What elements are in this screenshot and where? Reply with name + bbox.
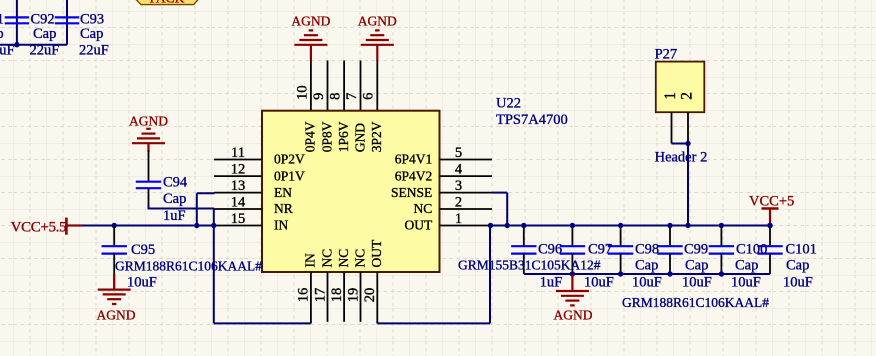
svg-text:22uF: 22uF — [79, 42, 109, 58]
svg-text:2: 2 — [678, 92, 695, 100]
capacitor C94 labels — [163, 175, 188, 224]
pin 11 (0P2V) left side — [214, 145, 305, 167]
capacitor C97 — [560, 226, 585, 275]
junction on bottom rail — [618, 271, 623, 276]
pin 10 (0P4V) top side — [294, 61, 317, 153]
svg-text:3: 3 — [455, 178, 462, 194]
junction at C92 lead and horizontal bus — [14, 42, 19, 47]
svg-text:P27: P27 — [655, 47, 678, 63]
U22 comment TPS7A4700 — [496, 112, 568, 128]
wire - capacitor bottom rail — [524, 273, 770, 275]
junction at C98 top — [618, 223, 623, 228]
junction on bottom rail — [667, 271, 672, 276]
pin 15 (IN) left side — [214, 211, 288, 233]
svg-text:Cap: Cap — [80, 26, 103, 42]
svg-text:11: 11 — [231, 145, 245, 161]
junction at SENSE riser — [505, 223, 510, 228]
svg-text:EN: EN — [274, 185, 292, 200]
svg-text:1P6V: 1P6V — [336, 121, 351, 152]
svg-text:C100: C100 — [736, 241, 767, 257]
svg-text:10uF: 10uF — [127, 274, 157, 290]
svg-text:7: 7 — [344, 93, 360, 100]
svg-text:VCC+5.5: VCC+5.5 — [11, 219, 67, 235]
svg-text:C95: C95 — [131, 242, 155, 258]
pin 2 of P27 — [678, 92, 695, 143]
junction at pin 1 OUT — [488, 223, 493, 228]
svg-text:13: 13 — [231, 178, 246, 194]
svg-text:0P2V: 0P2V — [274, 152, 305, 167]
wire - C94 down to NR net — [148, 188, 150, 209]
junction on bottom rail — [570, 271, 575, 276]
junction at C100 top — [719, 223, 724, 228]
wire - P27 pin1 to pin2 — [672, 143, 689, 145]
ground AGND above pin 10 — [291, 14, 330, 61]
svg-text:1uF: 1uF — [540, 274, 563, 290]
svg-text:22uF: 22uF — [30, 42, 60, 58]
junction at C101 top — [767, 223, 772, 228]
capacitor C99 — [657, 226, 682, 275]
pin 7 (GND) top side — [344, 61, 367, 153]
junction at P27 drop on OUT rail — [685, 223, 690, 228]
wire - top-left horizontal bus — [0, 44, 67, 46]
svg-text:p: p — [0, 26, 4, 42]
svg-text:C97: C97 — [588, 241, 612, 257]
pin 8 (1P6V) top side — [328, 61, 351, 153]
junction at EN riser — [194, 223, 199, 228]
connector P27 comment Header 2 — [655, 150, 708, 166]
wire - VCC+5.5 to pin 15 IN — [82, 225, 214, 227]
pin 5 (6P4V1) right side — [395, 145, 492, 167]
junction at C97 top — [570, 223, 575, 228]
junction at VCC+5 and C101 — [767, 223, 772, 228]
svg-text:Cap: Cap — [735, 257, 758, 273]
svg-text:GRM188R61C106KAAL#: GRM188R61C106KAAL# — [115, 259, 262, 274]
svg-text:9: 9 — [311, 93, 327, 100]
wire - top-left vertical into C93 lead — [66, 0, 68, 45]
svg-text:10uF: 10uF — [682, 274, 712, 290]
connector P27 body — [656, 62, 705, 113]
svg-text:14: 14 — [231, 194, 246, 210]
svg-text:AGND: AGND — [291, 14, 330, 29]
svg-text:SENSE: SENSE — [391, 185, 432, 200]
power port VCC+5.5 — [11, 218, 82, 236]
pin 6 (3P2V) top side — [361, 61, 384, 153]
pin 4 (6P4V2) right side — [395, 162, 492, 184]
capacitor C94 plates — [136, 182, 161, 189]
wire - top-left vertical into C92 lead — [16, 0, 18, 45]
svg-text:Cap: Cap — [163, 191, 186, 207]
ground AGND above C94 — [129, 114, 168, 152]
ground AGND below C95 — [97, 274, 136, 323]
wire - SENSE to OUT net — [492, 193, 507, 226]
svg-text:10uF: 10uF — [584, 274, 614, 290]
svg-text:OUT: OUT — [369, 239, 384, 267]
svg-text:NC: NC — [336, 249, 351, 268]
svg-text:PACK: PACK — [150, 0, 185, 6]
wire - pin 20 OUT bottom loop — [377, 226, 490, 324]
pin 20 (OUT) bottom side — [362, 239, 384, 322]
U22 designator label — [496, 95, 521, 111]
svg-text:C98: C98 — [635, 241, 659, 257]
pin 18 (NC) bottom side — [329, 249, 351, 322]
svg-text:0P1V: 0P1V — [274, 168, 305, 183]
shared part number GRM188R61C106KAAL# — [622, 295, 769, 310]
wire - EN riser — [197, 193, 215, 225]
svg-text:IN: IN — [303, 253, 318, 267]
pin 3 (SENSE) right side — [391, 178, 492, 200]
svg-text:AGND: AGND — [129, 114, 168, 129]
capacitor C96 labels — [458, 241, 601, 290]
svg-text:C99: C99 — [684, 241, 708, 257]
capacitor C101 labels — [783, 241, 817, 290]
svg-text:IN: IN — [274, 218, 288, 233]
svg-text:0P8V: 0P8V — [319, 121, 334, 152]
junction at P27 pin2 — [685, 141, 690, 146]
capacitor C95 — [102, 226, 127, 289]
pin 19 (NC) bottom side — [345, 249, 367, 322]
svg-text:AGND: AGND — [358, 14, 397, 29]
capacitor C95 labels — [115, 242, 262, 290]
svg-text:AGND: AGND — [554, 308, 593, 323]
ground AGND above pin 6 — [358, 14, 397, 61]
svg-text:NC: NC — [414, 201, 433, 216]
svg-text:TPS7A4700: TPS7A4700 — [496, 112, 568, 128]
svg-text:10: 10 — [294, 85, 310, 100]
svg-text:3P2V: 3P2V — [369, 121, 384, 152]
svg-text:10uF: 10uF — [632, 274, 662, 290]
svg-text:19: 19 — [345, 288, 361, 303]
capacitor C97 labels — [584, 241, 614, 290]
port PACK (clipped at top) — [134, 0, 201, 6]
wire - NR riser down through IN net to pin 16 loop — [213, 209, 215, 324]
svg-text:Cap: Cap — [33, 26, 56, 42]
pin 1 (OUT) right side — [405, 211, 492, 233]
svg-text:Cap: Cap — [685, 257, 708, 273]
pin 16 (IN) bottom side — [296, 253, 318, 322]
svg-text:Cap: Cap — [635, 257, 658, 273]
svg-text:OUT: OUT — [405, 218, 433, 233]
pin 2 (NC) right side — [414, 194, 492, 216]
junction on bottom rail — [719, 271, 724, 276]
capacitor C93 labels — [79, 11, 109, 58]
svg-text:1: 1 — [662, 92, 679, 100]
svg-text:0P4V: 0P4V — [303, 121, 318, 152]
capacitor C98 labels — [632, 241, 662, 290]
svg-text:GRM188R61C106KAAL#: GRM188R61C106KAAL# — [622, 295, 769, 310]
capacitor C96 — [511, 226, 536, 275]
ground AGND below C97 — [554, 274, 593, 323]
svg-text:U22: U22 — [496, 95, 521, 111]
wire - AGND to C94 — [148, 150, 150, 182]
svg-text:NC: NC — [352, 249, 367, 268]
pin 1 of P27 — [662, 92, 679, 143]
junction at NR riser and IN net — [211, 223, 216, 228]
pin 14 (NR) left side — [214, 194, 293, 216]
op-regulator U22 body — [262, 111, 440, 272]
svg-text:Header 2: Header 2 — [655, 150, 708, 166]
svg-text:uF: uF — [0, 42, 15, 58]
svg-text:6: 6 — [361, 93, 377, 100]
svg-text:10uF: 10uF — [783, 274, 813, 290]
svg-text:1: 1 — [455, 211, 462, 227]
svg-text:C94: C94 — [163, 175, 188, 191]
capacitor C93 plates — [55, 17, 79, 23]
svg-text:10uF: 10uF — [731, 274, 761, 290]
junction at C95 tap — [112, 223, 117, 228]
svg-text:NC: NC — [319, 249, 334, 268]
svg-text:C96: C96 — [538, 241, 562, 257]
capacitor C99 labels — [682, 241, 712, 290]
svg-text:1: 1 — [0, 11, 4, 27]
wire - P27 down to OUT rail — [687, 144, 689, 226]
capacitor C100 labels — [731, 241, 767, 290]
svg-text:16: 16 — [296, 288, 312, 303]
pin 12 (0P1V) left side — [214, 162, 305, 184]
svg-text:6P4V2: 6P4V2 — [395, 168, 433, 183]
svg-text:8: 8 — [328, 93, 344, 100]
svg-text:Cap: Cap — [786, 257, 809, 273]
svg-text:1uF: 1uF — [163, 208, 186, 224]
junction at C99 top — [667, 223, 672, 228]
svg-text:5: 5 — [455, 145, 462, 161]
wire - OUT rail — [490, 225, 770, 227]
svg-text:GRM155B31C105KA12#: GRM155B31C105KA12# — [458, 257, 601, 272]
capacitor C91 cut-off labels at left edge — [0, 11, 15, 58]
svg-text:18: 18 — [329, 288, 345, 303]
connector P27 designator — [655, 47, 678, 63]
wire - bottom loop to pin 16 — [214, 322, 311, 324]
capacitor C98 — [608, 226, 633, 275]
svg-text:12: 12 — [231, 162, 246, 178]
svg-text:17: 17 — [312, 288, 328, 303]
capacitor C92 labels — [30, 11, 60, 58]
svg-text:C92: C92 — [31, 11, 55, 27]
svg-text:C93: C93 — [80, 11, 104, 27]
svg-text:GND: GND — [352, 123, 367, 152]
svg-text:NR: NR — [274, 201, 293, 216]
svg-text:6P4V1: 6P4V1 — [395, 152, 433, 167]
pin 17 (NC) bottom side — [312, 249, 334, 322]
svg-text:2: 2 — [455, 194, 462, 210]
capacitor C92 plates — [5, 17, 29, 23]
svg-text:4: 4 — [455, 162, 463, 178]
svg-text:20: 20 — [362, 288, 378, 303]
svg-text:AGND: AGND — [97, 308, 136, 323]
svg-text:C101: C101 — [786, 241, 817, 257]
pin 9 (0P8V) top side — [311, 61, 334, 153]
junction at C96 top — [521, 223, 526, 228]
capacitor C101 — [757, 226, 782, 275]
pin 13 (EN) left side — [214, 178, 292, 200]
wire - NR net horizontal to pin 14 — [149, 208, 215, 210]
svg-text:15: 15 — [231, 211, 246, 227]
capacitor C100 — [709, 226, 734, 275]
power port VCC+5 — [749, 194, 794, 226]
